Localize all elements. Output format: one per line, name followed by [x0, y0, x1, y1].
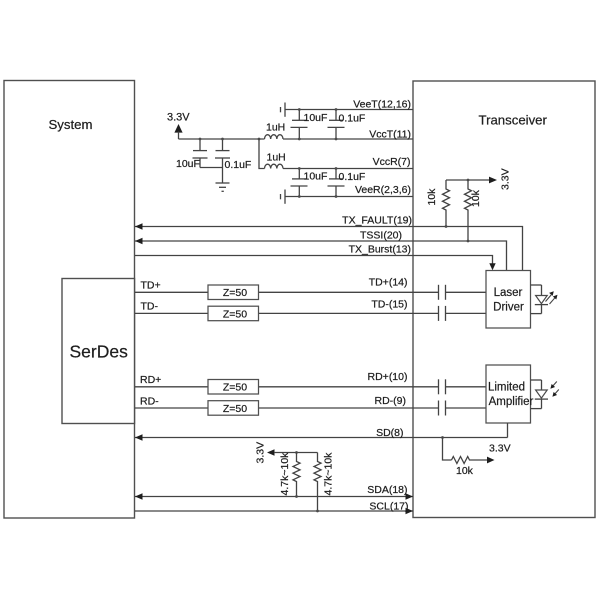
- node junction TSSI pullup top: [467, 179, 470, 182]
- wire ground stem: [222, 168, 224, 184]
- wire SDA: [135, 496, 413, 498]
- svg-text:0.1uF: 0.1uF: [339, 171, 366, 183]
- arrow TX_Burst into Laser Driver: [489, 263, 495, 270]
- resistor 10k (SD pullup): [452, 457, 488, 464]
- wire VeeT: [285, 109, 413, 111]
- inductor L2 1uH: [265, 164, 284, 168]
- capacitor 0.1uF (VeeT bypass): [328, 110, 345, 140]
- svg-text:4.7k~10k: 4.7k~10k: [279, 452, 291, 496]
- svg-text:1uH: 1uH: [266, 121, 285, 133]
- node junction TSSI pullup bottom: [467, 240, 470, 243]
- svg-text:SDA(18): SDA(18): [367, 484, 407, 496]
- capacitor coupling (RD-): [439, 401, 446, 416]
- wire SD to pullup resistor: [443, 438, 452, 461]
- arrow SD into System: [135, 434, 143, 440]
- svg-text:3.3V: 3.3V: [500, 168, 512, 190]
- LED laser diode: [531, 285, 558, 314]
- block Transceiver: [413, 81, 595, 518]
- svg-text:Driver: Driver: [493, 302, 524, 314]
- svg-text:SerDes: SerDes: [70, 342, 129, 362]
- svg-text:Z=50: Z=50: [223, 308, 247, 320]
- svg-text:Z=50: Z=50: [223, 287, 247, 299]
- wire TX_FAULT: [135, 227, 523, 271]
- svg-text:VeeT(12,16): VeeT(12,16): [353, 99, 411, 111]
- arrow SDA into System: [135, 493, 143, 499]
- svg-text:RD+: RD+: [140, 374, 161, 386]
- capacitor 0.1uF (VeeR bypass): [328, 169, 345, 197]
- wire VccT: [283, 138, 413, 140]
- svg-text:Z=50: Z=50: [223, 382, 247, 394]
- svg-text:Limited: Limited: [488, 381, 525, 393]
- arrow to 3.3V (SD pullup): [487, 457, 495, 464]
- svg-text:TD+: TD+: [141, 280, 161, 292]
- arrow SDA into Transceiver: [406, 493, 414, 499]
- block System: [4, 81, 135, 519]
- resistor 4.7k~10k (SDA pullup): [293, 453, 300, 497]
- block SerDes: [62, 279, 135, 424]
- svg-text:VccR(7): VccR(7): [373, 156, 411, 168]
- svg-text:Laser: Laser: [494, 287, 523, 299]
- wire rail to L2: [259, 139, 265, 169]
- wire RD-: [135, 407, 486, 409]
- power arrow 3.3V (pullup rail): [489, 177, 497, 184]
- capacitor coupling (TD-): [439, 306, 446, 321]
- svg-text:1uH: 1uH: [267, 152, 286, 164]
- chassis ground (VeeT left): [281, 103, 286, 117]
- arrow TX_FAULT into System: [135, 223, 143, 229]
- svg-text:0.1uF: 0.1uF: [225, 159, 252, 171]
- capacitor 10uF (VeeT bypass): [291, 110, 308, 140]
- ground: [216, 183, 230, 191]
- resistor 4.7k~10k (SCL pullup): [314, 453, 321, 512]
- capacitor coupling (RD+): [439, 379, 446, 394]
- wire 3.3V rail: [179, 138, 265, 140]
- node junction TX_FAULT pullup: [445, 225, 448, 228]
- wire 3.3V feed (I2C pullups): [274, 452, 318, 454]
- capacitor 10uF (VeeR bypass): [291, 169, 308, 197]
- svg-text:10uF: 10uF: [176, 158, 200, 170]
- node junction rail to VccR branch: [258, 138, 261, 141]
- wire VccR: [283, 168, 413, 170]
- svg-text:0.1uF: 0.1uF: [339, 112, 366, 124]
- svg-text:Amplifier: Amplifier: [489, 396, 534, 408]
- svg-text:10k: 10k: [470, 189, 482, 207]
- capacitor 0.1uF (main filter): [215, 139, 230, 168]
- svg-text:10k: 10k: [426, 188, 438, 206]
- svg-text:TD+(14): TD+(14): [369, 277, 408, 289]
- wire 3.3V stem: [178, 132, 180, 140]
- node junction SDA pullup bottom: [295, 495, 298, 498]
- impedance Z=50 (RD+): [208, 380, 259, 395]
- photodiode: [531, 380, 559, 409]
- svg-text:10uF: 10uF: [304, 171, 328, 183]
- power arrow 3.3V (top left): [174, 124, 182, 133]
- svg-text:TD-: TD-: [141, 301, 159, 313]
- svg-text:3.3V: 3.3V: [489, 443, 511, 455]
- svg-text:TSSI(20): TSSI(20): [360, 230, 402, 242]
- svg-text:Z=50: Z=50: [223, 403, 247, 415]
- svg-text:SCL(17): SCL(17): [369, 500, 408, 512]
- svg-text:TX_FAULT(19): TX_FAULT(19): [342, 215, 412, 227]
- wire SD: [135, 437, 508, 439]
- wire TD+: [135, 291, 486, 293]
- impedance Z=50 (TD+): [208, 285, 259, 300]
- wire Limited Amplifier to SD: [507, 423, 509, 438]
- svg-text:TX_Burst(13): TX_Burst(13): [349, 244, 411, 256]
- wire 3.3V pullup rail (TX_FAULT/TSSI): [446, 179, 490, 181]
- node junctions bypass caps: [199, 108, 338, 198]
- svg-text:RD+(10): RD+(10): [368, 371, 408, 383]
- svg-text:RD-(9): RD-(9): [375, 395, 407, 407]
- block Laser Driver U1: [486, 271, 531, 329]
- node junction SD pullup: [441, 436, 444, 439]
- capacitor coupling (TD+): [439, 285, 446, 300]
- node junction SCL pullup bottom: [316, 510, 319, 513]
- svg-text:10k: 10k: [456, 465, 474, 477]
- svg-text:10uF: 10uF: [304, 112, 328, 124]
- wire VeeR: [285, 196, 413, 198]
- chassis ground (VeeR left): [281, 190, 286, 204]
- svg-text:RD-: RD-: [140, 396, 159, 408]
- impedance Z=50 (RD-): [208, 401, 259, 416]
- wire TX_Burst: [135, 256, 493, 265]
- wire TSSI: [135, 241, 507, 271]
- arrow SCL into Transceiver: [406, 508, 414, 514]
- svg-text:SD(8): SD(8): [376, 427, 403, 439]
- capacitor 10uF (main filter): [193, 139, 208, 168]
- resistor 10k (TX_FAULT pullup): [443, 180, 450, 227]
- svg-text:3.3V: 3.3V: [167, 112, 190, 124]
- inductor L1 1uH: [265, 135, 284, 139]
- wire RD+: [135, 386, 486, 388]
- svg-text:4.7k~10k: 4.7k~10k: [323, 452, 335, 496]
- wire TD-: [135, 312, 486, 314]
- resistor 10k (TSSI pullup): [465, 180, 472, 241]
- power arrow 3.3V (I2C pullups): [267, 449, 275, 455]
- impedance Z=50 (TD-): [208, 306, 259, 321]
- svg-text:TD-(15): TD-(15): [371, 299, 407, 311]
- svg-text:VeeR(2,3,6): VeeR(2,3,6): [355, 184, 411, 196]
- wire SCL: [135, 510, 413, 512]
- svg-text:System: System: [49, 117, 93, 132]
- node junction SDA pullup top: [295, 451, 298, 454]
- block Limited Amplifier U2: [486, 365, 534, 423]
- svg-text:3.3V: 3.3V: [255, 442, 267, 464]
- svg-text:Transceiver: Transceiver: [479, 113, 548, 128]
- svg-text:VccT(11): VccT(11): [369, 129, 411, 141]
- arrow TSSI into System: [135, 238, 143, 244]
- wire filter bottom rail: [200, 167, 223, 169]
